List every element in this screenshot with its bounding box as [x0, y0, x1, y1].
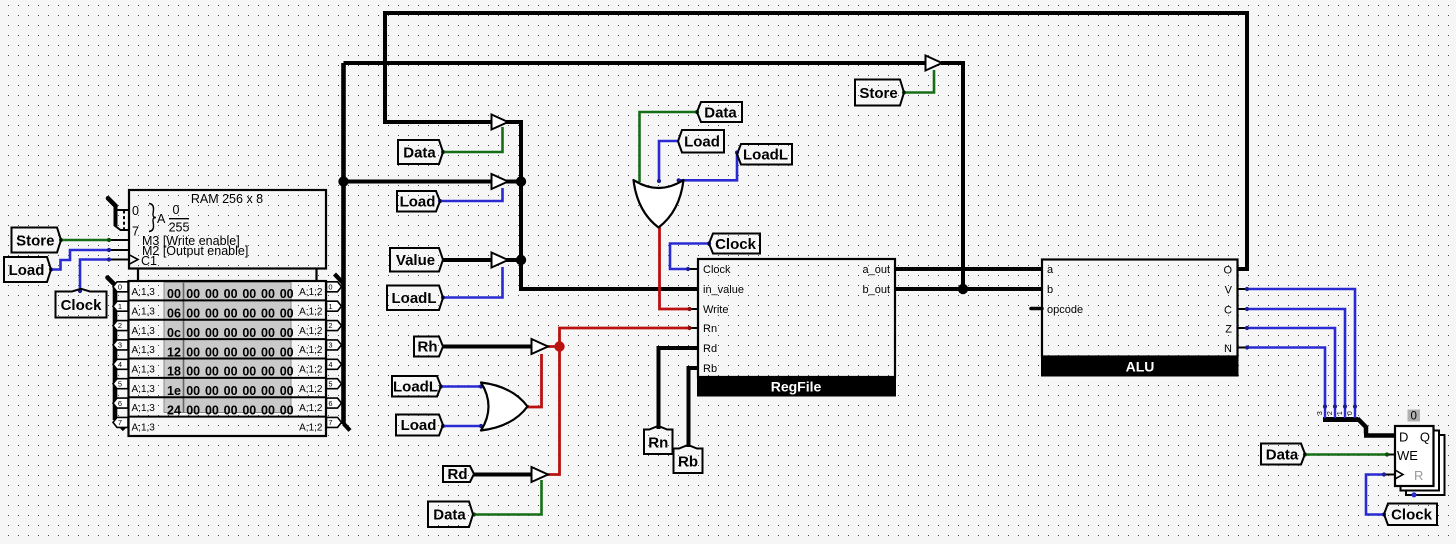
svg-text:Load: Load [9, 262, 45, 279]
svg-text:00: 00 [224, 384, 238, 398]
svg-text:00: 00 [280, 326, 294, 340]
tunnel Load [396, 415, 443, 436]
RAM address splitter leg 7 [115, 226, 130, 231]
wire end (red) [687, 307, 691, 311]
svg-text:2: 2 [328, 321, 332, 330]
RAM 256x8 component body [129, 190, 326, 281]
svg-text:Clock: Clock [715, 236, 757, 253]
svg-text:00: 00 [242, 307, 256, 321]
svg-text:00: 00 [242, 287, 256, 301]
svg-text:1: 1 [118, 302, 122, 311]
wire end (blue) [1333, 404, 1337, 408]
ALU title [1126, 359, 1155, 375]
wire Clock tunnel to RegFile Clock (blue) [670, 244, 709, 270]
svg-text:00: 00 [205, 345, 219, 359]
wire bus branch to Load buffer input [344, 180, 493, 184]
wire end (blue) [657, 179, 661, 183]
wire Rn tunnel to RegFile Rd pin [659, 348, 699, 429]
svg-text:b: b [1047, 284, 1053, 296]
RAM table row 0 labels [132, 287, 323, 298]
wire ALU V to splitter bit 0 (blue) [1247, 289, 1355, 407]
wire end (green) [59, 238, 63, 242]
svg-text:Write: Write [703, 304, 728, 316]
RAM contents highlighted area [164, 283, 291, 413]
RAM title [191, 192, 263, 206]
wire end (blue) [107, 248, 111, 252]
svg-text:A;1,3: A;1,3 [132, 365, 156, 376]
RegFile Clock pin stub [688, 268, 698, 270]
RAM table left flag bit 3 [113, 340, 128, 350]
svg-text:24: 24 [167, 403, 181, 417]
wire Clock tunnel to register clock (blue) [1366, 475, 1384, 515]
wire Clock tunnel to RAM C1 (blue) [80, 260, 109, 291]
RAM address splitter leg 0 [116, 209, 130, 211]
RAM table row 2 labels [132, 326, 323, 337]
RAM table right flag bit 7 [327, 417, 342, 427]
junction b net [958, 284, 968, 294]
wire ALU opcode stub (unconnected) [1031, 307, 1042, 311]
svg-text:ALU: ALU [1126, 359, 1155, 375]
svg-text:00: 00 [280, 307, 294, 321]
svg-text:3: 3 [328, 341, 332, 350]
svg-text:A;1;2: A;1;2 [299, 423, 323, 434]
wire Value buffer output to in_value riser [505, 258, 521, 262]
wire ALU N to splitter bit 3 (blue) [1247, 348, 1325, 408]
register stack shadow box 3 [1406, 435, 1445, 495]
svg-text:00: 00 [186, 307, 200, 321]
RAM table row 5 hex contents [167, 384, 294, 398]
svg-text:D: D [1399, 430, 1408, 445]
ALU component U4 [1041, 260, 1239, 377]
wire Load tunnel to buffer enable (blue) [440, 188, 503, 201]
svg-text:00: 00 [186, 384, 200, 398]
svg-text:00: 00 [261, 345, 275, 359]
RAM table row 4 labels [132, 365, 323, 376]
RegFile Rn pin stub [690, 327, 699, 329]
wire RegFile b_out to ALU b [895, 287, 1042, 291]
wire end (green) [441, 150, 445, 154]
svg-text:Value: Value [396, 252, 435, 269]
splitter bus diagonal [1358, 419, 1367, 434]
svg-text:6: 6 [328, 399, 332, 408]
svg-text:2: 2 [1327, 411, 1334, 415]
RAM table row 0 hex contents [167, 287, 294, 301]
RAM table left flag bit 1 [113, 301, 128, 311]
wire end (blue) [1245, 326, 1249, 330]
RAM table right flag bit 2 [327, 321, 342, 331]
tunnel Rd [443, 466, 474, 483]
tunnel Clock [56, 289, 107, 318]
svg-text:18: 18 [167, 365, 181, 379]
wire end (green) [902, 90, 906, 94]
junction in_value riser / Value buffer [516, 255, 526, 265]
svg-text:00: 00 [261, 365, 275, 379]
wire RAM data bus top run to Store buffer [344, 61, 927, 65]
svg-text:00: 00 [242, 326, 256, 340]
svg-text:2: 2 [118, 321, 122, 330]
svg-text:Store: Store [859, 85, 897, 102]
svg-text:4: 4 [328, 360, 332, 369]
svg-text:7: 7 [328, 418, 332, 427]
RAM table left flag bit 4 [113, 359, 128, 369]
RegFile pin labels [703, 264, 890, 375]
svg-text:Clock: Clock [703, 264, 731, 276]
wire Rh tunnel to buffer [443, 345, 532, 349]
svg-text:6: 6 [118, 399, 122, 408]
svg-text:00: 00 [242, 365, 256, 379]
svg-text:0: 0 [1347, 411, 1354, 415]
wire end (blue) [707, 241, 711, 245]
wire end (blue) [735, 150, 739, 154]
RegFile title [771, 379, 822, 395]
wire end (blue) [1353, 404, 1357, 408]
svg-text:Load: Load [400, 194, 436, 211]
svg-text:4: 4 [118, 360, 122, 369]
RAM table left flag bit 0 [113, 282, 128, 292]
wire splitter bus to register D [1364, 433, 1396, 438]
svg-text:12: 12 [167, 345, 181, 359]
svg-text:Rd: Rd [448, 466, 468, 483]
controlled buffer B4 (Store enable) [926, 56, 943, 71]
register value label 0 [1408, 410, 1421, 423]
svg-text:N: N [1224, 343, 1232, 355]
svg-text:Data: Data [433, 507, 466, 524]
svg-text:5: 5 [118, 379, 122, 388]
wire end (red) [687, 326, 691, 330]
OR gate U1 (3-input, pointing down) [634, 180, 684, 228]
wire Store tunnel to buffer enable (green) [904, 70, 934, 93]
RAM contents table box [129, 281, 327, 436]
tunnel Data [1261, 444, 1305, 465]
RAM table left flag bit 5 [113, 379, 128, 389]
RAM table row 7 labels [132, 423, 323, 434]
controlled buffer B3 (Value) [492, 253, 509, 268]
wire end (blue) [441, 295, 445, 299]
RAM M3 pin stub [109, 239, 129, 241]
svg-text:a: a [1047, 264, 1054, 276]
wire end (green) [472, 512, 476, 516]
wire Data tunnel to buffer enable (green) [443, 127, 503, 152]
memory table left splitter spine [113, 284, 118, 420]
svg-text:LoadL: LoadL [392, 290, 437, 307]
svg-text:A;1,3: A;1,3 [132, 423, 156, 434]
svg-text:Rb: Rb [703, 363, 717, 375]
tunnel Rn [644, 426, 673, 454]
svg-text:Rn: Rn [703, 323, 717, 335]
RAM address splitter spine [114, 205, 118, 226]
register unconnected reset pin (blue) [1411, 492, 1416, 497]
svg-text:M2 [Output enable]: M2 [Output enable] [142, 244, 248, 258]
wire buffer outputs to RegFile in_value [505, 122, 698, 289]
svg-text:RAM 256 x 8: RAM 256 x 8 [191, 192, 263, 206]
junction in_value riser / Load buffer [516, 176, 526, 186]
RAM table right flag bit 0 [327, 282, 342, 292]
ALU Z pin stub [1238, 327, 1247, 329]
svg-text:A;1,3: A;1,3 [132, 326, 156, 337]
ALU pin labels [1047, 264, 1233, 355]
svg-text:00: 00 [261, 287, 275, 301]
wire Data tunnel to OR gate input (green) [640, 112, 698, 182]
memory table right splitter top diagonal [335, 274, 344, 284]
svg-text:WE: WE [1397, 448, 1418, 463]
svg-text:b_out: b_out [862, 284, 890, 296]
wire end (blue) [107, 257, 111, 261]
svg-text:R: R [1414, 468, 1423, 483]
svg-text:00: 00 [186, 345, 200, 359]
wire ALU O output loop to tri-state buffer (net O) [385, 13, 1247, 269]
tunnel Store [855, 80, 904, 106]
svg-text:A;1;2: A;1;2 [299, 384, 323, 395]
wire end (blue) [479, 384, 483, 388]
tunnel Data [428, 502, 473, 528]
svg-text:Rh: Rh [418, 339, 438, 356]
tunnel Rh [414, 337, 443, 357]
wire ALU C to splitter bit 1 (blue) [1247, 309, 1345, 407]
wire ALU Z to splitter bit 2 (blue) [1247, 328, 1335, 407]
wire Load tunnel to OR2 input (blue) [443, 425, 481, 428]
RAM table left flag bit 2 [113, 321, 128, 331]
RAM clock triangle [129, 255, 138, 265]
svg-text:Data: Data [1266, 446, 1299, 463]
splitter leg bit 2 (blue) [1334, 407, 1336, 418]
controlled buffer B5 (Rh) [532, 339, 549, 354]
RAM table row 6 labels [132, 403, 323, 414]
svg-text:A;1,3: A;1,3 [132, 287, 156, 298]
svg-text:00: 00 [205, 403, 219, 417]
memory table left splitter tail [108, 278, 116, 286]
wire end (blue) [441, 424, 445, 428]
RAM table right flag bit 3 [327, 340, 342, 350]
svg-text:00: 00 [186, 365, 200, 379]
svg-text:00: 00 [186, 287, 200, 301]
svg-text:00: 00 [205, 307, 219, 321]
svg-text:A;1;2: A;1;2 [299, 326, 323, 337]
OR gate U2 (2-input, pointing right) [481, 383, 528, 431]
RAM table row 3 labels [132, 345, 323, 356]
controlled buffer B1 (Data enable, feeds in_value) [492, 115, 509, 130]
svg-text:RegFile: RegFile [771, 379, 822, 395]
svg-text:00: 00 [242, 345, 256, 359]
RAM table row dividers [129, 300, 327, 416]
wire end (blue) [1245, 307, 1249, 311]
wire Store tunnel to RAM M3 (green) [61, 239, 109, 242]
svg-text:00: 00 [205, 384, 219, 398]
svg-text:1: 1 [1337, 411, 1344, 415]
svg-text:Q: Q [1420, 430, 1430, 445]
wire register Q stub [1433, 434, 1446, 439]
RAM table right flag bit 4 [327, 359, 342, 369]
wire Load tunnel to OR gate (blue) [659, 141, 678, 181]
svg-text:00: 00 [224, 307, 238, 321]
wire Rb tunnel to RegFile Rb pin [689, 368, 699, 447]
svg-text:Rn: Rn [648, 434, 668, 451]
RAM address brace and A 0/255 annotation [149, 203, 189, 235]
svg-text:LoadL: LoadL [393, 378, 438, 395]
svg-text:00: 00 [280, 365, 294, 379]
RAM address splitter tail [108, 198, 116, 206]
svg-text:7: 7 [118, 418, 122, 427]
controlled buffer B6 (Rd) [532, 467, 549, 482]
svg-text:00: 00 [261, 403, 275, 417]
tunnel Rb [674, 445, 703, 473]
register stack shadow box 2 [1401, 431, 1440, 491]
wire end (green) [107, 238, 111, 242]
RAM table row 2 hex contents [167, 326, 294, 340]
svg-text:A;1,3: A;1,3 [132, 403, 156, 414]
wire Rd tunnel to buffer [474, 473, 532, 477]
memory table right splitter spine / data bus riser [341, 63, 346, 424]
splitter leg bit 3 (blue) [1324, 407, 1326, 418]
wire end (blue) [78, 289, 82, 293]
wire end (green) [1303, 452, 1307, 456]
svg-text:0: 0 [328, 283, 332, 292]
svg-text:C1: C1 [141, 254, 157, 268]
splitter leg bit 0 (blue) [1354, 407, 1356, 418]
svg-text:A;1;2: A;1;2 [299, 287, 323, 298]
svg-text:Z: Z [1225, 324, 1232, 336]
svg-text:1e: 1e [167, 384, 181, 398]
svg-text:00: 00 [224, 345, 238, 359]
wire end (blue) [1382, 512, 1386, 516]
svg-text:opcode: opcode [1047, 304, 1083, 316]
svg-text:A;1,3: A;1,3 [132, 384, 156, 395]
svg-text:A;1,3: A;1,3 [132, 306, 156, 317]
register front box U5 [1395, 426, 1434, 486]
svg-text:7: 7 [132, 225, 139, 239]
svg-text:Rd: Rd [703, 343, 717, 355]
svg-text:A;1;2: A;1;2 [299, 345, 323, 356]
RAM M2 pin stub [109, 249, 129, 251]
RAM control pin labels [141, 234, 248, 268]
tunnel Clock [1384, 504, 1437, 526]
RAM table row 3 hex contents [167, 345, 294, 359]
svg-text:00: 00 [224, 403, 238, 417]
svg-text:00: 00 [280, 345, 294, 359]
tunnel Data [697, 102, 742, 122]
svg-text:A: A [157, 212, 166, 226]
wire Data tunnel to Rd buffer enable (green) [474, 480, 542, 515]
wire red net down to Rd buffer output (red) [547, 347, 560, 475]
svg-text:00: 00 [224, 287, 238, 301]
RAM table right flag bit 6 [327, 398, 342, 408]
svg-text:00: 00 [242, 403, 256, 417]
svg-text:A;1,3: A;1,3 [132, 345, 156, 356]
RAM table row 4 hex contents [167, 365, 294, 379]
register WE pin stub [1387, 454, 1395, 456]
tunnel Load [397, 191, 440, 212]
svg-text:00: 00 [242, 384, 256, 398]
tunnel LoadL [737, 144, 792, 165]
wire Load tunnel to RAM M2 (blue) [51, 250, 109, 270]
svg-text:Load: Load [684, 134, 720, 151]
svg-text:00: 00 [186, 326, 200, 340]
splitter spine (flag bits to bus) [1323, 417, 1358, 422]
wire RegFile a_out to ALU a [895, 267, 1042, 271]
svg-text:0: 0 [118, 283, 122, 292]
wire end (blue) [1245, 345, 1249, 349]
svg-text:0: 0 [1410, 411, 1416, 423]
RAM table row 1 hex contents [167, 307, 294, 321]
svg-text:00: 00 [224, 365, 238, 379]
splitter leg bit 1 (blue) [1344, 407, 1346, 418]
svg-text:00: 00 [205, 287, 219, 301]
ALU N pin stub [1238, 347, 1247, 349]
wire end (blue) [49, 267, 53, 271]
wire end (blue) [1343, 404, 1347, 408]
svg-text:0: 0 [173, 203, 180, 217]
wire end (blue) [686, 267, 690, 271]
tunnel Value [390, 248, 443, 272]
wire OR2 output to Rh buffer enable (red) [527, 354, 542, 407]
svg-text:O: O [1223, 265, 1232, 277]
controlled buffer B2 (Load enable) [492, 174, 509, 189]
tunnel Clock [709, 234, 760, 254]
memory table left splitter bottom diagonal [115, 420, 125, 430]
svg-text:V: V [1225, 285, 1233, 297]
wire LoadL tunnel to OR gate (blue) [679, 153, 737, 181]
splitter bit labels 3 2 1 0 [1317, 411, 1354, 415]
junction red net at Rh buffer [554, 341, 564, 351]
svg-text:3: 3 [118, 341, 122, 350]
RegFile component U3 [697, 259, 896, 397]
RAM table row 5 labels [132, 384, 323, 395]
svg-text:06: 06 [167, 307, 181, 321]
register clock triangle [1395, 470, 1403, 479]
svg-text:A;1;2: A;1;2 [299, 306, 323, 317]
svg-text:00: 00 [261, 307, 275, 321]
wire end (blue) [1382, 472, 1386, 476]
RAM table left flag bit 7 [113, 417, 128, 427]
svg-text:LoadL: LoadL [743, 147, 788, 164]
tunnel LoadL [387, 286, 443, 311]
svg-text:Clock: Clock [1391, 507, 1433, 524]
svg-text:00: 00 [280, 403, 294, 417]
wire end (green) [695, 110, 699, 114]
tunnel LoadL [392, 376, 441, 397]
wire Store buffer output down to b net [941, 63, 963, 289]
wire end (green) [1385, 452, 1389, 456]
svg-text:00: 00 [261, 384, 275, 398]
wire end (blue) [439, 384, 443, 388]
wire Data tunnel to register WE (green) [1305, 453, 1387, 456]
wire end (blue) [1323, 404, 1327, 408]
wire end (blue) [438, 199, 442, 203]
RAM address pin labels 0 / 7 [132, 204, 139, 239]
svg-text:C: C [1224, 305, 1232, 317]
svg-text:1: 1 [328, 302, 332, 311]
svg-text:00: 00 [167, 287, 181, 301]
svg-text:A;1;2: A;1;2 [299, 365, 323, 376]
svg-text:00: 00 [186, 403, 200, 417]
RAM C1 pin stub [109, 259, 129, 261]
RAM table row 6 hex contents [167, 403, 294, 417]
ALU C pin stub [1238, 308, 1247, 310]
wire end (blue) [1245, 287, 1249, 291]
svg-text:00: 00 [280, 287, 294, 301]
register clock pin stub [1384, 474, 1395, 476]
svg-text:00: 00 [280, 384, 294, 398]
svg-text:a_out: a_out [862, 264, 890, 276]
wire end (blue) [677, 178, 681, 182]
svg-text:Data: Data [704, 104, 737, 121]
svg-text:00: 00 [261, 326, 275, 340]
RegFile Write pin stub [690, 308, 699, 310]
wire Rh buffer output to RegFile Rn (red) [547, 328, 690, 347]
svg-text:0: 0 [132, 204, 139, 218]
RAM table row 1 labels [132, 306, 323, 317]
tunnel Load [678, 130, 724, 153]
svg-text:00: 00 [205, 365, 219, 379]
